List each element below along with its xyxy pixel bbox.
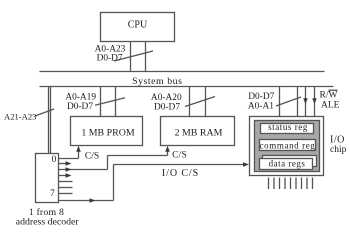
- svg-text:I/O: I/O: [330, 135, 345, 146]
- svg-text:D0-D7: D0-D7: [248, 92, 274, 102]
- svg-text:CPU: CPU: [128, 20, 148, 31]
- svg-text:D0-D7: D0-D7: [97, 54, 123, 64]
- svg-text:1 MB PROM: 1 MB PROM: [81, 128, 134, 139]
- svg-text:A21-A23: A21-A23: [4, 112, 36, 122]
- svg-text:command reg: command reg: [260, 140, 316, 150]
- svg-text:data regs: data regs: [269, 159, 306, 169]
- svg-text:D0-D7: D0-D7: [67, 102, 93, 112]
- svg-text:status reg: status reg: [268, 122, 308, 132]
- svg-text:C/S: C/S: [85, 152, 99, 162]
- svg-text:C/S: C/S: [172, 151, 187, 161]
- svg-text:R/W: R/W: [320, 91, 338, 101]
- svg-text:0: 0: [52, 155, 57, 165]
- svg-text:A0-A1: A0-A1: [248, 102, 274, 112]
- svg-text:chip: chip: [330, 145, 347, 155]
- svg-text:A0-A20: A0-A20: [151, 93, 182, 103]
- svg-text:I/O C/S: I/O C/S: [162, 168, 199, 179]
- svg-text:D0-D7: D0-D7: [154, 103, 180, 113]
- svg-text:7: 7: [50, 189, 55, 199]
- svg-text:A0-A19: A0-A19: [65, 93, 96, 103]
- svg-text:address decoder: address decoder: [16, 217, 80, 228]
- svg-text:ALE: ALE: [321, 101, 340, 111]
- svg-text:System bus: System bus: [132, 76, 182, 87]
- svg-text:2 MB RAM: 2 MB RAM: [175, 128, 223, 139]
